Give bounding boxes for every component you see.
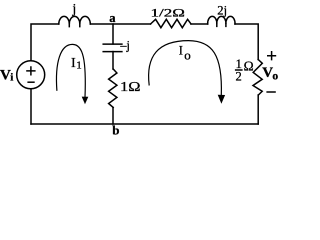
resistor 1/2 ohm (horizontal zigzag) [151,19,192,27]
svg-text:o: o [184,48,191,63]
svg-text:–j: –j [119,38,130,53]
resistor 1/2 ohm right (vertical zigzag) [253,60,262,96]
wire top-left segment [31,24,59,61]
svg-text:i: i [10,72,13,84]
output + sign [267,51,276,60]
svg-text:o: o [272,70,278,82]
svg-text:2: 2 [236,70,242,84]
svg-text:Ω: Ω [244,58,254,73]
svg-text:1/2Ω: 1/2Ω [151,6,186,20]
resistor bottom stub to node b [112,108,114,125]
capacitor -j plates [103,44,122,52]
svg-text:I: I [179,44,183,58]
svg-text:j: j [72,1,77,16]
svg-text:1: 1 [76,60,82,72]
svg-text:a: a [109,11,116,25]
source - sign [27,81,34,83]
wire bottom [31,123,258,125]
loop current Io arc [149,41,222,96]
svg-text:2j: 2j [217,3,227,17]
output - sign [266,91,275,93]
node a junction stub [112,24,114,44]
inductor 2j [208,16,235,24]
wire top-mid segment [90,23,150,25]
wire top-right corner down [235,24,258,60]
I1 arrowhead [82,97,89,105]
capacitor bottom stub [112,52,114,69]
source + sign [26,66,35,75]
wire left-bottom segment [30,89,32,124]
wire right-bottom segment [257,95,259,124]
resistor 1 ohm (vertical zigzag) [109,69,117,108]
voltage source V_i circle [17,61,45,89]
wire between resistor and inductor 2j [191,23,208,25]
inductor j [59,16,91,24]
svg-text:1Ω: 1Ω [120,80,141,95]
Io arrowhead [218,95,225,104]
loop current I1 arc [56,44,85,97]
svg-text:b: b [112,123,119,138]
